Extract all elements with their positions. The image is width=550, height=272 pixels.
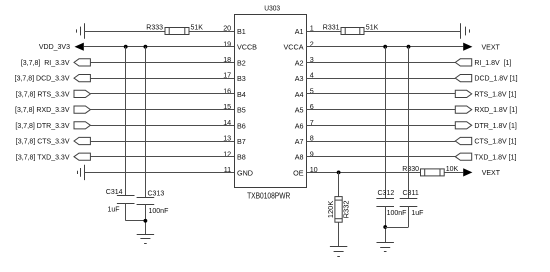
svg-text:[3,7,8] RI_3.3V: [3,7,8] RI_3.3V <box>21 60 70 67</box>
label pin number 6 <box>310 102 314 111</box>
label net DCD_1.8V <box>474 76 517 83</box>
svg-text:R332: R332 <box>341 200 350 218</box>
capacitor C312 <box>376 199 394 207</box>
label net VEXT <box>482 45 501 52</box>
label pin name A1 <box>295 27 304 36</box>
svg-text:C313: C313 <box>148 191 165 198</box>
net flag TXD_1.8V <box>455 153 471 160</box>
ground G1 (rotated, facing left) <box>77 23 85 38</box>
label value 100nF (C313) <box>149 208 169 215</box>
label pin name A8 <box>295 153 304 162</box>
label pin name VCCA <box>284 43 304 52</box>
svg-text:TXB0108PWR: TXB0108PWR <box>247 191 290 200</box>
label refdes C312 <box>378 190 395 197</box>
label pin number 7 <box>310 118 314 127</box>
svg-text:R333: R333 <box>146 25 163 32</box>
svg-text:51K: 51K <box>191 25 204 32</box>
label refdes C313 <box>148 191 165 198</box>
net flag RXD_1.8V <box>455 106 471 113</box>
label pin name A7 <box>295 137 304 146</box>
net flag TXD_3.3V <box>74 153 90 160</box>
label pin name A5 <box>295 106 304 115</box>
svg-text:[3,7,8] DCD_3.3V: [3,7,8] DCD_3.3V <box>15 76 70 83</box>
label refdes R330 <box>402 166 419 173</box>
net flag DTR_1.8V <box>455 122 471 129</box>
svg-text:A8: A8 <box>295 153 304 162</box>
svg-text:B3: B3 <box>237 74 246 83</box>
refdes R332 <box>341 200 350 218</box>
wire C311 to C312 bottom <box>385 227 408 229</box>
wire chip to RXD_1.8V <box>307 109 456 111</box>
net flag RTS_1.8V <box>455 90 471 97</box>
label net RTS_3.3V <box>16 92 70 99</box>
label pin name B4 <box>237 90 246 99</box>
svg-text:[3,7,8] DTR_3.3V: [3,7,8] DTR_3.3V <box>15 123 69 130</box>
label pin number 19 <box>223 39 231 48</box>
label pin name B7 <box>237 137 246 146</box>
svg-text:5: 5 <box>310 87 314 96</box>
svg-text:R331: R331 <box>323 25 340 32</box>
wire chip to RTS_1.8V <box>307 93 456 95</box>
label pin number 3 <box>310 55 314 64</box>
label net RTS_1.8V <box>474 92 516 99</box>
label pin number 17 <box>223 71 231 80</box>
label pin name OE <box>293 168 304 177</box>
label refdes C314 <box>106 189 123 196</box>
power flag VDD_3V3 arrow <box>75 43 84 51</box>
wire DTR_3.3V to chip <box>90 125 234 127</box>
capacitor C311 <box>400 199 418 207</box>
junction OE / R332 <box>337 171 341 175</box>
capacitor C313 <box>137 198 155 205</box>
label net RI_3.3V <box>21 60 70 67</box>
wire R333 to pin 20 <box>189 31 234 33</box>
junction C313/C314 bottoms <box>144 219 148 223</box>
wire R332 to ground <box>338 222 340 247</box>
label pin name A2 <box>295 58 304 67</box>
wire ground to R333 <box>84 31 165 33</box>
label pin number 8 <box>310 134 314 143</box>
label pin name B3 <box>237 74 246 83</box>
svg-text:A1: A1 <box>295 27 304 36</box>
svg-text:[3,7,8] CTS_3.3V: [3,7,8] CTS_3.3V <box>16 139 70 146</box>
wire VEXT to C311 <box>408 47 410 198</box>
ground G5 <box>330 247 347 257</box>
net flag DCD_3.3V <box>74 75 90 82</box>
svg-text:C314: C314 <box>106 189 123 196</box>
wire R331 to ground <box>364 31 460 33</box>
label pin number 10 <box>310 165 318 174</box>
label pin name A6 <box>295 121 304 130</box>
label net CTS_1.8V <box>474 139 516 146</box>
label pin number 9 <box>310 149 314 158</box>
wire C314 to C313 bottom <box>126 220 146 222</box>
svg-text:[3,7,8] TXD_3.3V: [3,7,8] TXD_3.3V <box>16 154 70 161</box>
label net DCD_3.3V <box>15 76 70 83</box>
label value 51K (R331) <box>366 25 379 32</box>
label pin number 2 <box>310 39 314 48</box>
label net VEXT (OE) <box>482 170 501 177</box>
wire chip to RI_1.8V <box>307 62 456 64</box>
wire chip to CTS_1.8V <box>307 141 456 143</box>
svg-text:A6: A6 <box>295 121 304 130</box>
svg-text:B6: B6 <box>237 121 246 130</box>
svg-text:B2: B2 <box>237 58 246 67</box>
wire RXD_3.3V to chip <box>90 109 234 111</box>
label value 100nF (C312) <box>387 210 407 217</box>
ground G2 (rotated, facing left) <box>78 165 85 180</box>
wire pin 1 to R331 <box>307 31 342 33</box>
label pin number 4 <box>310 71 314 80</box>
label pin number 18 <box>223 55 231 64</box>
label pin number 1 <box>310 24 314 33</box>
label value 1uF (C314) <box>107 207 119 214</box>
label net CTS_3.3V <box>16 139 70 146</box>
net flag CTS_1.8V <box>455 137 471 144</box>
net flag DTR_3.3V <box>74 122 90 129</box>
label pin name B1 <box>237 27 246 36</box>
label part TXB0108PWR <box>247 191 290 200</box>
svg-text:RXD_1.8V [1]: RXD_1.8V [1] <box>474 107 517 114</box>
svg-text:VCCA: VCCA <box>284 43 304 52</box>
label net RXD_3.3V <box>15 107 70 114</box>
label refdes U303 <box>264 4 280 13</box>
wire TXD_3.3V to chip <box>90 156 234 158</box>
label pin name B2 <box>237 58 246 67</box>
ground G6 <box>377 243 394 252</box>
ground G4 (rotated, facing right) <box>461 23 470 38</box>
svg-text:VEXT: VEXT <box>482 170 501 177</box>
label pin name B8 <box>237 153 246 162</box>
svg-text:100nF: 100nF <box>387 210 407 217</box>
svg-text:VDD_3V3: VDD_3V3 <box>39 44 70 51</box>
wire C314 down <box>125 204 127 221</box>
svg-text:B5: B5 <box>237 106 246 115</box>
svg-text:A2: A2 <box>295 58 304 67</box>
label net RI_1.8V <box>474 60 511 67</box>
svg-text:16: 16 <box>223 87 231 96</box>
svg-text:VEXT: VEXT <box>482 45 501 52</box>
label pin number 15 <box>223 102 231 111</box>
label pin name A3 <box>295 74 304 83</box>
label pin name B6 <box>237 121 246 130</box>
svg-text:C312: C312 <box>378 190 395 197</box>
svg-text:OE: OE <box>293 168 304 177</box>
resistor R330 <box>421 169 445 176</box>
label value 1uF (C311) <box>411 210 423 217</box>
label pin number 14 <box>223 118 231 127</box>
svg-text:DCD_1.8V [1]: DCD_1.8V [1] <box>474 76 517 83</box>
wire CTS_3.3V to chip <box>90 141 234 143</box>
label pin number 20 <box>223 24 231 33</box>
value 120K (R332) <box>326 201 335 219</box>
wire C312 to ground <box>385 206 387 243</box>
power flag VEXT arrow (row 10) <box>463 168 472 176</box>
svg-text:A7: A7 <box>295 137 304 146</box>
label pin name GND <box>237 168 253 177</box>
label net DTR_3.3V <box>15 123 69 130</box>
net flag RTS_3.3V <box>74 90 90 97</box>
wire pin 10 OE to R330 <box>307 172 421 174</box>
label refdes R331 <box>323 25 340 32</box>
net flag RI_3.3V <box>74 59 90 66</box>
wire VDD to C313 <box>145 47 147 197</box>
svg-text:1uF: 1uF <box>107 207 119 214</box>
svg-text:VCCB: VCCB <box>237 43 257 52</box>
wire chip to TXD_1.8V <box>307 156 456 158</box>
label pin number 12 <box>223 149 231 158</box>
wire chip to DTR_1.8V <box>307 125 456 127</box>
junction C311/C312 bottoms <box>383 225 387 229</box>
label refdes R333 <box>146 25 163 32</box>
label net DTR_1.8V <box>474 123 516 130</box>
capacitor C314 <box>117 196 135 204</box>
label pin number 16 <box>223 87 231 96</box>
label pin name VCCB <box>237 43 257 52</box>
net flag RI_1.8V <box>455 59 471 66</box>
svg-text:GND: GND <box>237 168 253 177</box>
net flag DCD_1.8V <box>455 75 471 82</box>
svg-text:1uF: 1uF <box>411 210 423 217</box>
net flag CTS_3.3V <box>74 137 90 144</box>
svg-text:100nF: 100nF <box>149 208 169 215</box>
resistor R333 <box>165 28 189 35</box>
svg-text:B1: B1 <box>237 27 246 36</box>
svg-text:B8: B8 <box>237 153 246 162</box>
wire C311 down <box>408 206 410 227</box>
label net TXD_3.3V <box>16 154 70 161</box>
power flag VEXT arrow (row 2) <box>463 43 472 51</box>
junction VEXT rail / C312 <box>383 45 387 49</box>
svg-text:R330: R330 <box>402 166 419 173</box>
svg-text:[3,7,8] RXD_3.3V: [3,7,8] RXD_3.3V <box>15 107 70 114</box>
svg-text:CTS_1.8V [1]: CTS_1.8V [1] <box>474 139 516 146</box>
label pin name A4 <box>295 90 304 99</box>
label net TXD_1.8V <box>474 154 516 161</box>
wire DCD_3.3V to chip <box>90 78 234 80</box>
svg-text:DTR_1.8V [1]: DTR_1.8V [1] <box>474 123 516 130</box>
wire VEXT to C312 <box>385 47 387 198</box>
ground G3 <box>137 235 154 244</box>
label refdes C311 <box>403 190 419 197</box>
wire chip to DCD_1.8V <box>307 78 456 80</box>
svg-text:B4: B4 <box>237 90 246 99</box>
svg-text:RI_1.8V [1]: RI_1.8V [1] <box>474 60 511 67</box>
label pin name B5 <box>237 106 246 115</box>
wire C313 to ground <box>145 205 147 235</box>
wire ground to pin 11 GND <box>85 172 235 174</box>
wire VDD_3V3 rail to pin 19 <box>84 46 234 48</box>
junction VDD rail / C314 <box>124 45 128 49</box>
wire OE to R332 <box>338 172 340 196</box>
net flag RXD_3.3V <box>74 106 90 113</box>
wire RTS_3.3V to chip <box>90 93 234 95</box>
resistor R331 <box>341 28 364 35</box>
label pin number 5 <box>310 87 314 96</box>
svg-text:TXD_1.8V [1]: TXD_1.8V [1] <box>474 154 516 161</box>
svg-text:RTS_1.8V [1]: RTS_1.8V [1] <box>474 92 516 99</box>
wire VDD to C314 <box>125 47 127 196</box>
svg-text:A3: A3 <box>295 74 304 83</box>
svg-text:B7: B7 <box>237 137 246 146</box>
svg-text:120K: 120K <box>326 201 335 219</box>
svg-text:C311: C311 <box>403 190 419 197</box>
svg-text:51K: 51K <box>366 25 379 32</box>
wire RI_3.3V to chip <box>90 62 234 64</box>
svg-text:A4: A4 <box>295 90 304 99</box>
label pin number 11 <box>224 165 231 174</box>
resistor R332 <box>335 197 342 223</box>
label net RXD_1.8V <box>474 107 517 114</box>
label value 10K (R330) <box>446 166 459 173</box>
wire VCCA rail <box>307 46 464 48</box>
junction VDD rail / C313 <box>144 45 148 49</box>
IC U303 <box>235 15 307 188</box>
svg-text:[3,7,8] RTS_3.3V: [3,7,8] RTS_3.3V <box>16 92 70 99</box>
junction VEXT rail / C311 <box>407 45 411 49</box>
label net VDD_3V3 <box>39 44 70 51</box>
svg-text:U303: U303 <box>264 4 280 13</box>
label value 51K (R333) <box>191 25 204 32</box>
svg-text:A5: A5 <box>295 106 304 115</box>
wire R330 to VEXT <box>444 172 463 174</box>
svg-text:10K: 10K <box>446 166 459 173</box>
label pin number 13 <box>223 134 231 143</box>
